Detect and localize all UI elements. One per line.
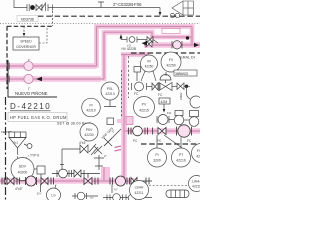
reducer on pipe P1	[24, 61, 33, 70]
svg-text:SDV: SDV	[19, 165, 27, 169]
drain drop left	[40, 184, 42, 192]
left border battery limit	[5, 97, 7, 200]
vent tick on header	[98, 2, 104, 8]
gate valve right of FV	[177, 83, 184, 90]
SDV valve body	[25, 177, 27, 185]
svg-text:34B5W23: 34B5W23	[175, 72, 188, 76]
dashed signal from valve to governor	[52, 11, 54, 26]
level gauge LG	[47, 188, 61, 202]
dashed link to LAHH	[149, 185, 188, 187]
ESD dashed boundary vertical	[128, 56, 130, 98]
fine dotted line	[0, 22, 200, 24]
pipe P11 right header	[124, 128, 200, 134]
svg-text:PT: PT	[179, 153, 183, 157]
svg-text:42250: 42250	[145, 65, 154, 69]
svg-text:2″: 2″	[104, 154, 107, 158]
svg-text:TYP 6: TYP 6	[30, 154, 39, 158]
relief discharge line fittings	[52, 169, 100, 178]
control valve FV with diaphragm	[159, 72, 172, 91]
svg-text:3209: 3209	[153, 159, 161, 163]
svg-text:42250: 42250	[166, 64, 176, 68]
flow arrow on P7	[36, 77, 42, 81]
svg-text:42M: 42M	[161, 100, 168, 104]
pipe stub left of riser	[117, 119, 124, 123]
governor dashed enclosure	[7, 26, 53, 89]
signal dashes XV to valves	[141, 71, 145, 81]
instrument LSHH 42211	[130, 181, 149, 200]
svg-text:42211: 42211	[135, 191, 144, 195]
gate valve 2	[41, 178, 48, 185]
bottom small fitting row	[72, 192, 152, 202]
svg-text:FC: FC	[158, 93, 163, 97]
pipe P7 horizontal second left run	[0, 76, 101, 82]
top feed line	[14, 0, 160, 12]
pipe P8 lower right run	[144, 42, 200, 48]
instrument FV 42250	[161, 52, 181, 72]
svg-text:LAHH: LAHH	[192, 180, 200, 184]
svg-text:PV: PV	[142, 103, 147, 107]
svg-text:1½″: 1½″	[37, 192, 42, 196]
pipe P1 horizontal upper-left	[0, 63, 97, 69]
svg-text:½″: ½″	[90, 196, 94, 200]
relief valve body	[80, 145, 88, 153]
svg-text:PI: PI	[155, 153, 158, 157]
label B03736	[17, 16, 38, 22]
ball valve (filled) B03736	[30, 5, 35, 10]
speed governor box	[13, 37, 39, 50]
svg-text:B03736: B03736	[21, 16, 35, 21]
svg-text:24K02: 24K02	[179, 92, 183, 100]
instrument PT 42216	[172, 148, 191, 167]
pipe return P5	[104, 32, 192, 37]
valve XV body	[132, 82, 161, 91]
svg-text:GOVERNOR: GOVERNOR	[16, 45, 36, 49]
float chamber	[166, 190, 189, 198]
wire: top line to right	[48, 7, 160, 9]
svg-text:½″: ½″	[114, 188, 118, 192]
svg-text:FC: FC	[133, 139, 138, 143]
valve handle	[41, 3, 46, 11]
junction dot on return	[186, 36, 189, 39]
flow arrow right end P8	[194, 43, 199, 47]
gate valve	[7, 178, 14, 185]
instrument PV 42215	[134, 97, 155, 118]
instrument XV 42250	[141, 55, 158, 72]
svg-text:HP FUEL GAS K.O. DRUM: HP FUEL GAS K.O. DRUM	[10, 115, 67, 120]
solenoid box right of SDV	[37, 166, 45, 174]
wire PSL to tap	[104, 100, 116, 107]
svg-text:FC: FC	[134, 92, 139, 96]
svg-text:1″: 1″	[28, 87, 31, 91]
arrowhead down to boundary	[159, 12, 162, 16]
drops from header to transmitters	[156, 135, 158, 148]
svg-text:42213: 42213	[105, 92, 114, 96]
svg-text:4″x3″: 4″x3″	[15, 187, 23, 191]
pipe flare drain stub	[101, 167, 110, 181]
PSV inlet line	[60, 149, 80, 170]
heavy dashed line mid right	[131, 52, 200, 54]
junction dot and drop	[185, 85, 188, 88]
interlock box 42M	[159, 98, 170, 104]
instrument PI 3209	[148, 148, 167, 167]
svg-text:HV 4222B: HV 4222B	[122, 47, 137, 51]
svg-text:FV: FV	[169, 58, 174, 62]
pipe P10 stub	[121, 52, 149, 57]
globe valve with positioner	[174, 111, 189, 125]
arrow down from 42M	[163, 104, 165, 109]
svg-text:3±1: 3±1	[14, 141, 19, 145]
pipe riser P2	[94, 27, 99, 69]
valve flanges at inlet	[27, 4, 29, 11]
level gauge circle	[190, 96, 202, 108]
interlock circles	[170, 13, 174, 17]
pipe drop P4	[190, 24, 195, 45]
svg-text:4222: 4222	[196, 155, 200, 159]
svg-text:PSL: PSL	[107, 87, 113, 91]
pipe main riser P9	[121, 55, 127, 182]
drum nozzle line to NUEVO PINONE	[8, 60, 57, 97]
arrow up into header	[120, 34, 123, 39]
fittings on pink bottom header mid	[84, 174, 152, 186]
heavy dashed signal line lower right	[141, 143, 200, 145]
bowtie valve on P8 left	[146, 41, 152, 47]
svg-text:42215: 42215	[139, 109, 149, 113]
instrument PSV 42230	[80, 123, 98, 141]
dashed signal line left of riser	[121, 70, 123, 118]
spec break ticks	[115, 146, 122, 148]
flange pair	[16, 178, 18, 185]
svg-text:PI: PI	[89, 104, 92, 108]
flange pair 2	[50, 178, 52, 185]
flanges at left edge	[1, 178, 3, 185]
instrument FV right edge	[192, 144, 211, 163]
solenoid box	[134, 67, 141, 73]
svg-text:40200: 40200	[18, 171, 28, 175]
svg-text:4″x3″: 4″x3″	[79, 141, 87, 145]
instrument PSL 42213	[101, 82, 119, 100]
svg-text:FO: FO	[167, 111, 172, 115]
svg-text:LG: LG	[51, 194, 56, 198]
PV control valve	[157, 115, 174, 125]
instrument SDV 40200	[11, 158, 34, 181]
svg-text:PSV: PSV	[86, 128, 93, 132]
diagonal drain branch	[94, 129, 121, 170]
dashed link governor to line	[39, 27, 47, 43]
heavy dashed package boundary	[38, 15, 200, 17]
svg-text:NUEVO PIÑONE: NUEVO PIÑONE	[15, 91, 48, 96]
wire: down arrow line at x160	[159, 8, 161, 13]
bottom header fittings	[2, 176, 54, 186]
line label box on top header	[162, 29, 180, 34]
pink pipe centerlines	[0, 27, 200, 182]
svg-text:42216: 42216	[176, 159, 186, 163]
pipe P12 bottom header	[0, 178, 137, 184]
flow arrow into P8	[142, 41, 148, 46]
tag box 4B5W23	[174, 70, 197, 76]
diagonal signal to FV	[164, 135, 185, 150]
svg-text:2″-C0322B-F06: 2″-C0322B-F06	[113, 2, 142, 7]
svg-text:FC: FC	[187, 139, 192, 143]
instrument LAHH 42211	[189, 176, 205, 192]
pipe P3 top header	[94, 24, 192, 29]
dashed signal arrow into governor	[23, 26, 25, 33]
svg-text:D-42210: D-42210	[10, 102, 51, 111]
left edge flange ticks P1	[7, 63, 9, 83]
instrument PI 42219	[82, 98, 101, 117]
actuator valve right edge	[189, 111, 199, 127]
svg-text:FV: FV	[197, 149, 200, 153]
relief spring	[89, 144, 98, 155]
instrument square near riser	[107, 118, 114, 125]
svg-text:42219: 42219	[86, 109, 95, 113]
drain drop mid	[111, 185, 113, 194]
pink spec break box on riser	[126, 117, 133, 125]
svg-text:42230: 42230	[84, 133, 93, 137]
globe valve on P8	[172, 41, 182, 49]
fittings on right header P11	[129, 125, 192, 137]
svg-text:1″: 1″	[28, 58, 31, 62]
off-page connector top right	[172, 1, 194, 15]
svg-text:42211: 42211	[192, 185, 200, 189]
wire: inlet drop	[14, 0, 27, 8]
gate valve top	[36, 5, 42, 11]
pipe drop P6	[102, 30, 107, 81]
svg-text:LSHH: LSHH	[135, 186, 144, 190]
highlighted pink pipe run: fuel gas supply loop	[0, 45, 200, 181]
spectacle blind flanges	[46, 4, 53, 11]
HV valve on return line	[121, 37, 158, 44]
reducer on pipe P7	[24, 74, 33, 83]
svg-text:FC: FC	[157, 139, 162, 143]
svg-text:SPEED: SPEED	[20, 40, 32, 44]
equipment subtitle box	[8, 113, 67, 122]
vent stack with flame arrestor	[9, 132, 32, 158]
